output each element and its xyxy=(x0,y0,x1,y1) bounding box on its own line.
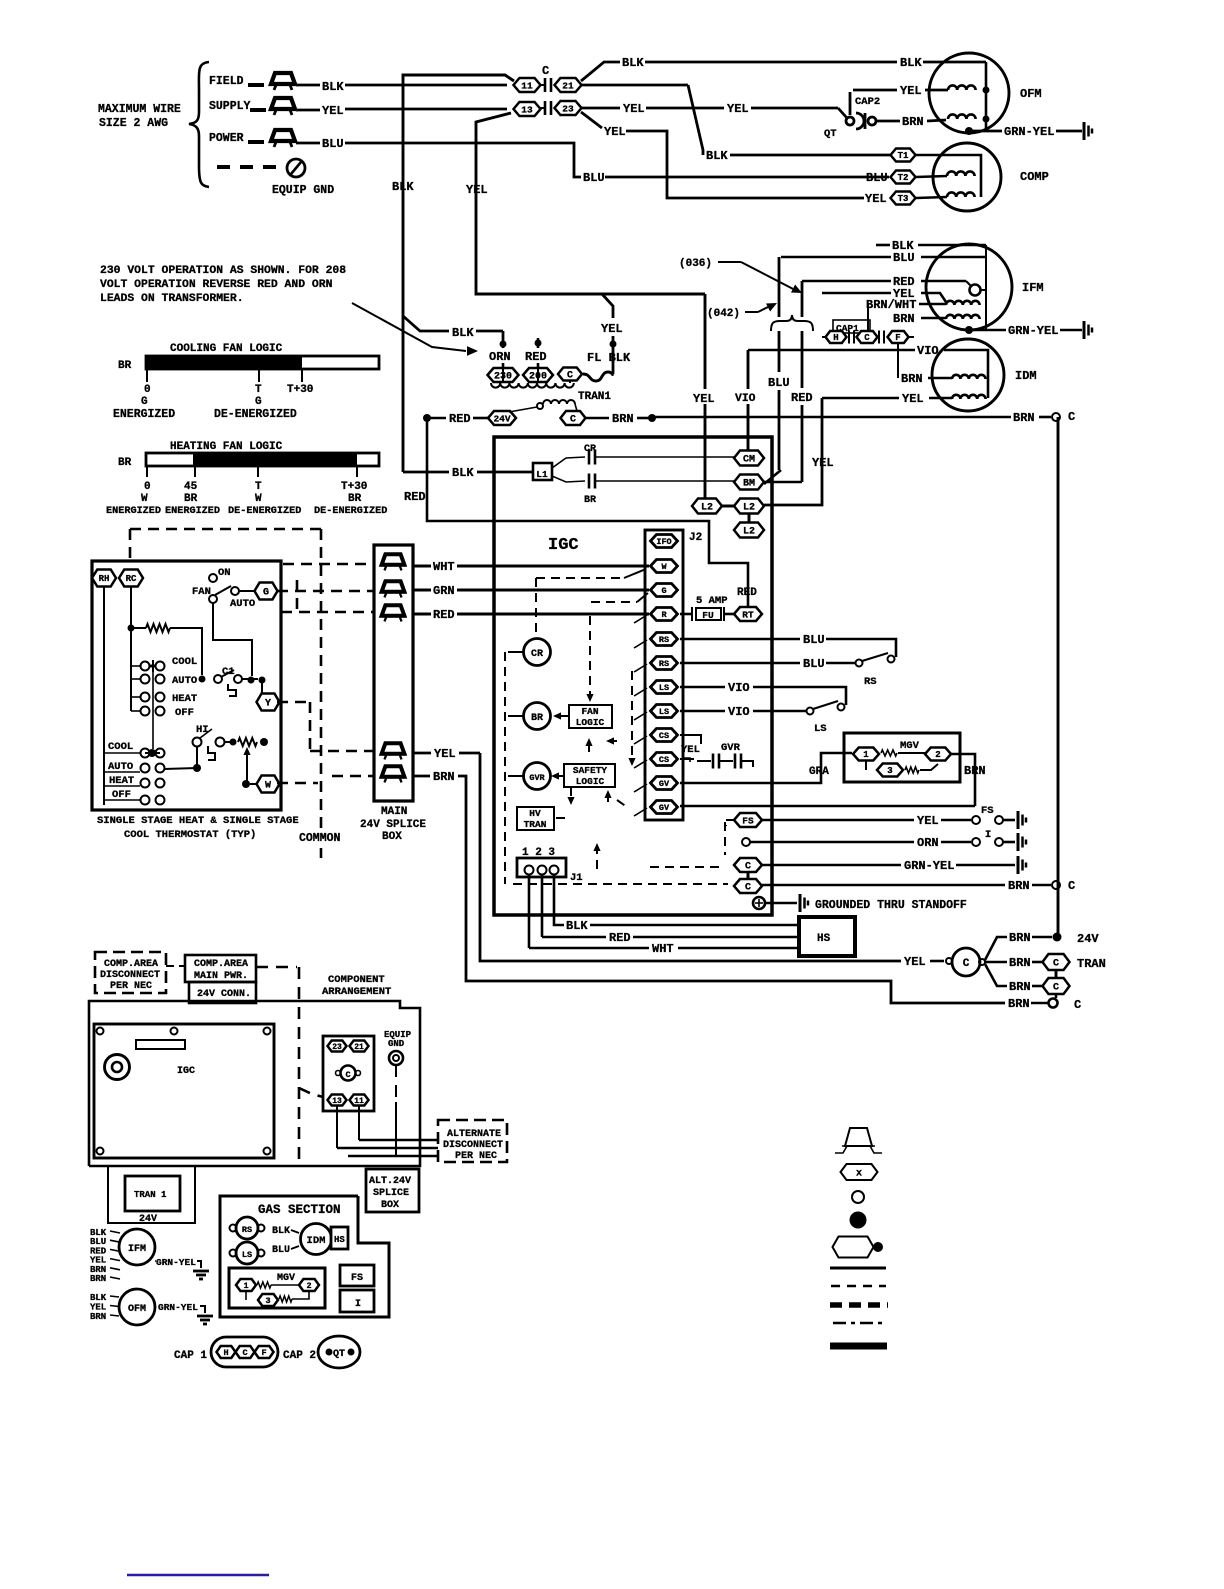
svg-text:POWER: POWER xyxy=(209,132,244,145)
svg-text:MGV: MGV xyxy=(900,740,920,752)
svg-text:IGC: IGC xyxy=(177,1066,195,1077)
svg-text:LS: LS xyxy=(659,707,669,717)
svg-text:PER NEC: PER NEC xyxy=(455,1151,497,1162)
svg-text:GAS SECTION: GAS SECTION xyxy=(258,1203,341,1217)
svg-text:CS: CS xyxy=(659,755,669,765)
svg-text:W: W xyxy=(265,781,271,792)
svg-text:0: 0 xyxy=(144,481,151,493)
svg-text:COOLING FAN LOGIC: COOLING FAN LOGIC xyxy=(170,343,283,355)
svg-text:T: T xyxy=(255,384,262,396)
svg-text:GVR: GVR xyxy=(721,742,741,754)
svg-text:F: F xyxy=(895,333,900,343)
svg-text:BR: BR xyxy=(118,457,132,469)
svg-text:COMMON: COMMON xyxy=(299,832,341,845)
svg-text:MAIN PWR.: MAIN PWR. xyxy=(194,971,248,982)
svg-text:x: x xyxy=(856,1169,862,1180)
svg-text:QT: QT xyxy=(333,1349,345,1360)
svg-text:13: 13 xyxy=(521,104,533,115)
svg-text:MAIN: MAIN xyxy=(381,806,407,818)
svg-text:BOX: BOX xyxy=(382,831,402,843)
svg-text:VIO: VIO xyxy=(728,705,750,719)
svg-text:SPLICE: SPLICE xyxy=(373,1188,409,1199)
svg-text:RED: RED xyxy=(449,412,471,426)
svg-text:BLU: BLU xyxy=(803,633,825,647)
svg-text:FS: FS xyxy=(981,805,994,817)
svg-text:C: C xyxy=(745,862,751,873)
svg-text:BRN: BRN xyxy=(901,372,923,386)
svg-text:BRN: BRN xyxy=(433,770,455,784)
svg-text:YEL: YEL xyxy=(434,747,456,761)
svg-text:LOGIC: LOGIC xyxy=(576,717,605,728)
svg-text:21: 21 xyxy=(562,80,574,91)
svg-text:C: C xyxy=(345,1070,350,1080)
svg-text:YEL: YEL xyxy=(812,456,834,470)
svg-text:CAP 1: CAP 1 xyxy=(174,1350,207,1362)
svg-text:11: 11 xyxy=(354,1097,364,1106)
svg-text:HS: HS xyxy=(817,933,831,945)
svg-text:TRAN1: TRAN1 xyxy=(578,391,611,403)
svg-text:DE-ENERGIZED: DE-ENERGIZED xyxy=(214,408,297,421)
svg-text:G: G xyxy=(263,588,269,599)
svg-text:24V CONN.: 24V CONN. xyxy=(197,989,251,1000)
svg-text:BRN: BRN xyxy=(1009,980,1031,994)
svg-text:BLK: BLK xyxy=(452,466,474,480)
svg-text:BLK: BLK xyxy=(90,1293,107,1303)
svg-text:VIO: VIO xyxy=(735,393,756,405)
svg-text:0: 0 xyxy=(144,384,151,396)
svg-text:RS: RS xyxy=(242,1225,252,1235)
svg-text:AUTO: AUTO xyxy=(230,598,255,610)
svg-text:YEL: YEL xyxy=(693,392,715,406)
svg-text:LS: LS xyxy=(659,683,669,693)
svg-text:VOLT OPERATION REVERSE RED AND: VOLT OPERATION REVERSE RED AND ORN xyxy=(100,279,333,291)
svg-text:230 VOLT OPERATION AS SHOWN. F: 230 VOLT OPERATION AS SHOWN. FOR 208 xyxy=(100,265,346,277)
svg-text:FAN: FAN xyxy=(581,706,598,717)
svg-text:11: 11 xyxy=(521,80,533,91)
svg-text:RED: RED xyxy=(609,931,631,945)
svg-text:RS: RS xyxy=(659,659,669,669)
svg-text:1: 1 xyxy=(243,1281,248,1291)
svg-text:GRN-YEL: GRN-YEL xyxy=(1008,324,1058,338)
svg-text:FAN: FAN xyxy=(192,586,211,598)
svg-text:BLK: BLK xyxy=(322,80,344,94)
svg-text:BR: BR xyxy=(531,713,543,724)
svg-text:LS: LS xyxy=(242,1250,252,1260)
svg-text:LEADS ON TRANSFORMER.: LEADS ON TRANSFORMER. xyxy=(100,293,244,305)
svg-text:COMP.AREA: COMP.AREA xyxy=(194,959,248,970)
svg-text:W: W xyxy=(255,493,262,505)
svg-text:FL BLK: FL BLK xyxy=(587,351,631,365)
svg-text:YEL: YEL xyxy=(90,1303,106,1313)
svg-text:QT: QT xyxy=(824,128,837,140)
svg-text:BR: BR xyxy=(584,495,596,506)
svg-text:5 AMP: 5 AMP xyxy=(696,595,728,607)
svg-text:ENERGIZED: ENERGIZED xyxy=(165,506,220,517)
svg-text:IDM: IDM xyxy=(1015,369,1037,383)
svg-text:YEL: YEL xyxy=(902,392,924,406)
svg-text:BLK: BLK xyxy=(272,1226,290,1237)
svg-text:BLK: BLK xyxy=(706,149,728,163)
svg-text:G: G xyxy=(255,396,262,408)
svg-text:TRAN: TRAN xyxy=(524,819,547,830)
svg-text:YEL: YEL xyxy=(466,183,488,197)
svg-text:YEL: YEL xyxy=(604,125,626,139)
svg-text:BLU: BLU xyxy=(893,251,915,265)
svg-text:GROUNDED THRU STANDOFF: GROUNDED THRU STANDOFF xyxy=(815,899,967,912)
svg-text:T+30: T+30 xyxy=(341,481,367,493)
svg-text:3: 3 xyxy=(887,766,892,776)
svg-text:G: G xyxy=(141,396,148,408)
svg-text:RH: RH xyxy=(99,574,110,584)
svg-text:J2: J2 xyxy=(689,532,702,544)
svg-text:H: H xyxy=(833,333,838,343)
svg-text:HEAT: HEAT xyxy=(172,693,197,705)
svg-text:GND: GND xyxy=(388,1039,405,1049)
svg-text:ENERGIZED: ENERGIZED xyxy=(106,506,161,517)
svg-text:BR: BR xyxy=(184,493,198,505)
svg-text:GRN-YEL: GRN-YEL xyxy=(156,1257,196,1268)
svg-text:3: 3 xyxy=(265,1296,270,1306)
svg-text:YEL: YEL xyxy=(865,192,887,206)
svg-text:YEL: YEL xyxy=(601,322,623,336)
svg-text:SIZE 2 AWG: SIZE 2 AWG xyxy=(99,117,168,130)
svg-text:T: T xyxy=(255,481,262,493)
svg-text:COMP: COMP xyxy=(1020,170,1049,184)
svg-text:BR: BR xyxy=(118,360,132,372)
svg-text:YEL: YEL xyxy=(727,102,749,116)
svg-text:OFF: OFF xyxy=(175,707,194,719)
svg-text:L1: L1 xyxy=(536,469,548,480)
svg-text:ORN: ORN xyxy=(489,350,511,364)
svg-text:HV: HV xyxy=(529,808,541,819)
svg-text:OFM: OFM xyxy=(128,1304,146,1315)
svg-text:GRN-YEL: GRN-YEL xyxy=(158,1302,198,1313)
svg-text:T1: T1 xyxy=(898,151,909,161)
svg-text:(036): (036) xyxy=(679,258,712,270)
svg-text:BRN: BRN xyxy=(1008,879,1030,893)
svg-text:CM: CM xyxy=(743,455,755,466)
svg-text:IDM: IDM xyxy=(307,1235,326,1247)
svg-text:BLU: BLU xyxy=(866,171,888,185)
svg-text:BRN: BRN xyxy=(1009,931,1031,945)
svg-text:24V SPLICE: 24V SPLICE xyxy=(360,819,426,831)
svg-text:C: C xyxy=(1074,998,1081,1012)
svg-text:FS: FS xyxy=(742,815,754,826)
svg-text:COOL: COOL xyxy=(108,741,133,753)
svg-text:C: C xyxy=(1053,959,1059,970)
svg-text:MGV: MGV xyxy=(277,1273,295,1284)
svg-text:YEL: YEL xyxy=(681,744,700,756)
svg-text:L2: L2 xyxy=(743,503,755,514)
svg-text:IGC: IGC xyxy=(548,536,579,555)
svg-text:W: W xyxy=(141,493,148,505)
svg-text:IFM: IFM xyxy=(1022,281,1044,295)
svg-text:RT: RT xyxy=(742,609,754,620)
svg-text:GRN-YEL: GRN-YEL xyxy=(1004,125,1054,139)
svg-text:CR: CR xyxy=(531,649,543,660)
svg-text:BRN: BRN xyxy=(1013,411,1035,425)
svg-text:VIO: VIO xyxy=(728,681,750,695)
svg-text:BRN: BRN xyxy=(902,115,924,129)
svg-text:MAXIMUM WIRE: MAXIMUM WIRE xyxy=(98,103,181,116)
svg-text:BRN: BRN xyxy=(612,412,634,426)
svg-text:24V: 24V xyxy=(1077,932,1099,946)
svg-text:T+30: T+30 xyxy=(287,384,313,396)
svg-text:BRN: BRN xyxy=(1008,997,1030,1011)
svg-text:CS: CS xyxy=(659,731,669,741)
svg-text:BLK: BLK xyxy=(622,56,644,70)
svg-text:Y: Y xyxy=(265,699,271,710)
svg-text:ENERGIZED: ENERGIZED xyxy=(113,408,175,421)
svg-text:T3: T3 xyxy=(898,194,909,204)
svg-text:GVR: GVR xyxy=(529,773,545,783)
svg-text:RED: RED xyxy=(525,350,547,364)
svg-text:SINGLE STAGE HEAT & SINGLE STA: SINGLE STAGE HEAT & SINGLE STAGE xyxy=(97,815,299,827)
svg-text:FIELD: FIELD xyxy=(209,75,244,88)
svg-text:YEL: YEL xyxy=(900,84,922,98)
svg-text:SAFETY: SAFETY xyxy=(573,765,608,776)
svg-text:23: 23 xyxy=(332,1043,342,1052)
svg-text:ORN: ORN xyxy=(917,836,939,850)
svg-text:COMP.AREA: COMP.AREA xyxy=(104,959,158,970)
svg-text:BRN: BRN xyxy=(1009,956,1031,970)
svg-text:C: C xyxy=(1068,410,1075,424)
svg-text:DE-ENERGIZED: DE-ENERGIZED xyxy=(314,506,387,517)
svg-text:BLK: BLK xyxy=(452,326,474,340)
svg-text:2: 2 xyxy=(935,750,940,760)
svg-text:VIO: VIO xyxy=(917,344,939,358)
svg-text:(042): (042) xyxy=(707,308,740,320)
svg-text:L2: L2 xyxy=(701,503,713,514)
svg-text:24V: 24V xyxy=(493,413,510,424)
svg-text:WHT: WHT xyxy=(652,942,674,956)
svg-text:FS: FS xyxy=(351,1273,363,1284)
svg-text:COOL: COOL xyxy=(172,656,197,668)
svg-text:CAP2: CAP2 xyxy=(855,96,880,108)
svg-text:BRN/WHT: BRN/WHT xyxy=(866,298,916,312)
svg-text:YEL: YEL xyxy=(623,102,645,116)
svg-text:RED: RED xyxy=(433,608,455,622)
svg-text:BLK: BLK xyxy=(900,56,922,70)
svg-text:GV: GV xyxy=(659,779,670,789)
svg-text:C: C xyxy=(864,333,870,343)
svg-text:2: 2 xyxy=(306,1281,311,1291)
svg-text:YEL: YEL xyxy=(917,814,939,828)
svg-text:YEL: YEL xyxy=(322,104,344,118)
svg-text:BRN: BRN xyxy=(964,764,986,778)
svg-text:CAP 2: CAP 2 xyxy=(283,1350,316,1362)
svg-text:RC: RC xyxy=(126,574,137,584)
svg-text:L2: L2 xyxy=(743,527,755,538)
svg-text:BR: BR xyxy=(348,493,362,505)
svg-text:BRN: BRN xyxy=(90,1312,106,1322)
svg-text:GRN-YEL: GRN-YEL xyxy=(904,859,954,873)
svg-text:C: C xyxy=(1053,983,1059,994)
svg-text:RS: RS xyxy=(659,635,669,645)
svg-text:C: C xyxy=(542,64,549,78)
svg-text:HEATING FAN LOGIC: HEATING FAN LOGIC xyxy=(170,441,283,453)
svg-text:ALT.24V: ALT.24V xyxy=(369,1176,411,1187)
svg-text:AUTO: AUTO xyxy=(172,675,197,687)
svg-text:C: C xyxy=(570,415,576,426)
svg-text:COOL THERMOSTAT (TYP): COOL THERMOSTAT (TYP) xyxy=(124,829,256,841)
svg-text:BLK: BLK xyxy=(566,919,588,933)
svg-text:FU: FU xyxy=(702,610,714,621)
svg-text:BLU: BLU xyxy=(583,171,605,185)
svg-text:SUPPLY: SUPPLY xyxy=(209,100,251,113)
svg-text:45: 45 xyxy=(184,481,198,493)
svg-text:BLU: BLU xyxy=(803,657,825,671)
svg-text:TRAN 1: TRAN 1 xyxy=(134,1190,167,1200)
svg-text:BLU: BLU xyxy=(768,376,790,390)
svg-text:WHT: WHT xyxy=(433,560,455,574)
svg-text:DISCONNECT: DISCONNECT xyxy=(100,970,160,981)
svg-text:RED: RED xyxy=(791,391,813,405)
svg-text:BOX: BOX xyxy=(381,1200,399,1211)
svg-text:TRAN: TRAN xyxy=(1077,957,1106,971)
svg-text:PER NEC: PER NEC xyxy=(110,981,152,992)
svg-text:RED: RED xyxy=(737,587,757,599)
svg-text:BRN: BRN xyxy=(90,1274,106,1284)
svg-text:YEL: YEL xyxy=(904,955,926,969)
svg-text:C: C xyxy=(242,1348,247,1358)
svg-text:C: C xyxy=(567,371,573,382)
svg-text:LS: LS xyxy=(814,723,827,735)
svg-text:1: 1 xyxy=(863,750,869,760)
svg-text:DISCONNECT: DISCONNECT xyxy=(443,1140,503,1151)
svg-text:I: I xyxy=(985,829,991,841)
svg-text:13: 13 xyxy=(332,1097,342,1106)
svg-text:R: R xyxy=(661,610,667,620)
svg-text:RS: RS xyxy=(864,676,877,688)
svg-text:RED: RED xyxy=(404,490,426,504)
svg-text:21: 21 xyxy=(354,1043,364,1052)
svg-text:ON: ON xyxy=(218,567,231,579)
svg-text:IFO: IFO xyxy=(656,537,671,547)
svg-text:C: C xyxy=(745,883,751,894)
svg-text:HI: HI xyxy=(196,724,209,736)
svg-text:GV: GV xyxy=(659,803,670,813)
svg-text:H: H xyxy=(223,1348,228,1358)
svg-text:I: I xyxy=(355,1299,361,1310)
svg-text:J1: J1 xyxy=(570,872,583,884)
svg-text:BLU: BLU xyxy=(272,1245,290,1256)
svg-text:IFM: IFM xyxy=(128,1244,146,1255)
svg-text:C: C xyxy=(1068,879,1075,893)
svg-text:C: C xyxy=(963,958,970,970)
svg-text:BM: BM xyxy=(743,479,755,490)
svg-text:GRA: GRA xyxy=(809,766,829,778)
svg-text:HS: HS xyxy=(334,1235,345,1245)
svg-text:COMPONENT: COMPONENT xyxy=(328,974,385,986)
svg-text:EQUIP GND: EQUIP GND xyxy=(272,184,334,197)
svg-text:GRN: GRN xyxy=(433,584,455,598)
svg-text:BLK: BLK xyxy=(392,180,414,194)
svg-text:LOGIC: LOGIC xyxy=(576,776,605,787)
svg-text:ARRANGEMENT: ARRANGEMENT xyxy=(322,986,391,998)
svg-text:F: F xyxy=(261,1348,266,1358)
svg-text:T2: T2 xyxy=(898,173,909,183)
svg-text:BLU: BLU xyxy=(322,137,344,151)
svg-text:DE-ENERGIZED: DE-ENERGIZED xyxy=(228,506,301,517)
svg-text:ALTERNATE: ALTERNATE xyxy=(447,1129,501,1140)
svg-text:G: G xyxy=(661,586,666,596)
svg-text:BRN: BRN xyxy=(893,312,915,326)
svg-text:24V: 24V xyxy=(139,1214,157,1225)
svg-text:OFM: OFM xyxy=(1020,87,1042,101)
svg-text:23: 23 xyxy=(562,103,574,114)
svg-text:W: W xyxy=(661,562,667,572)
